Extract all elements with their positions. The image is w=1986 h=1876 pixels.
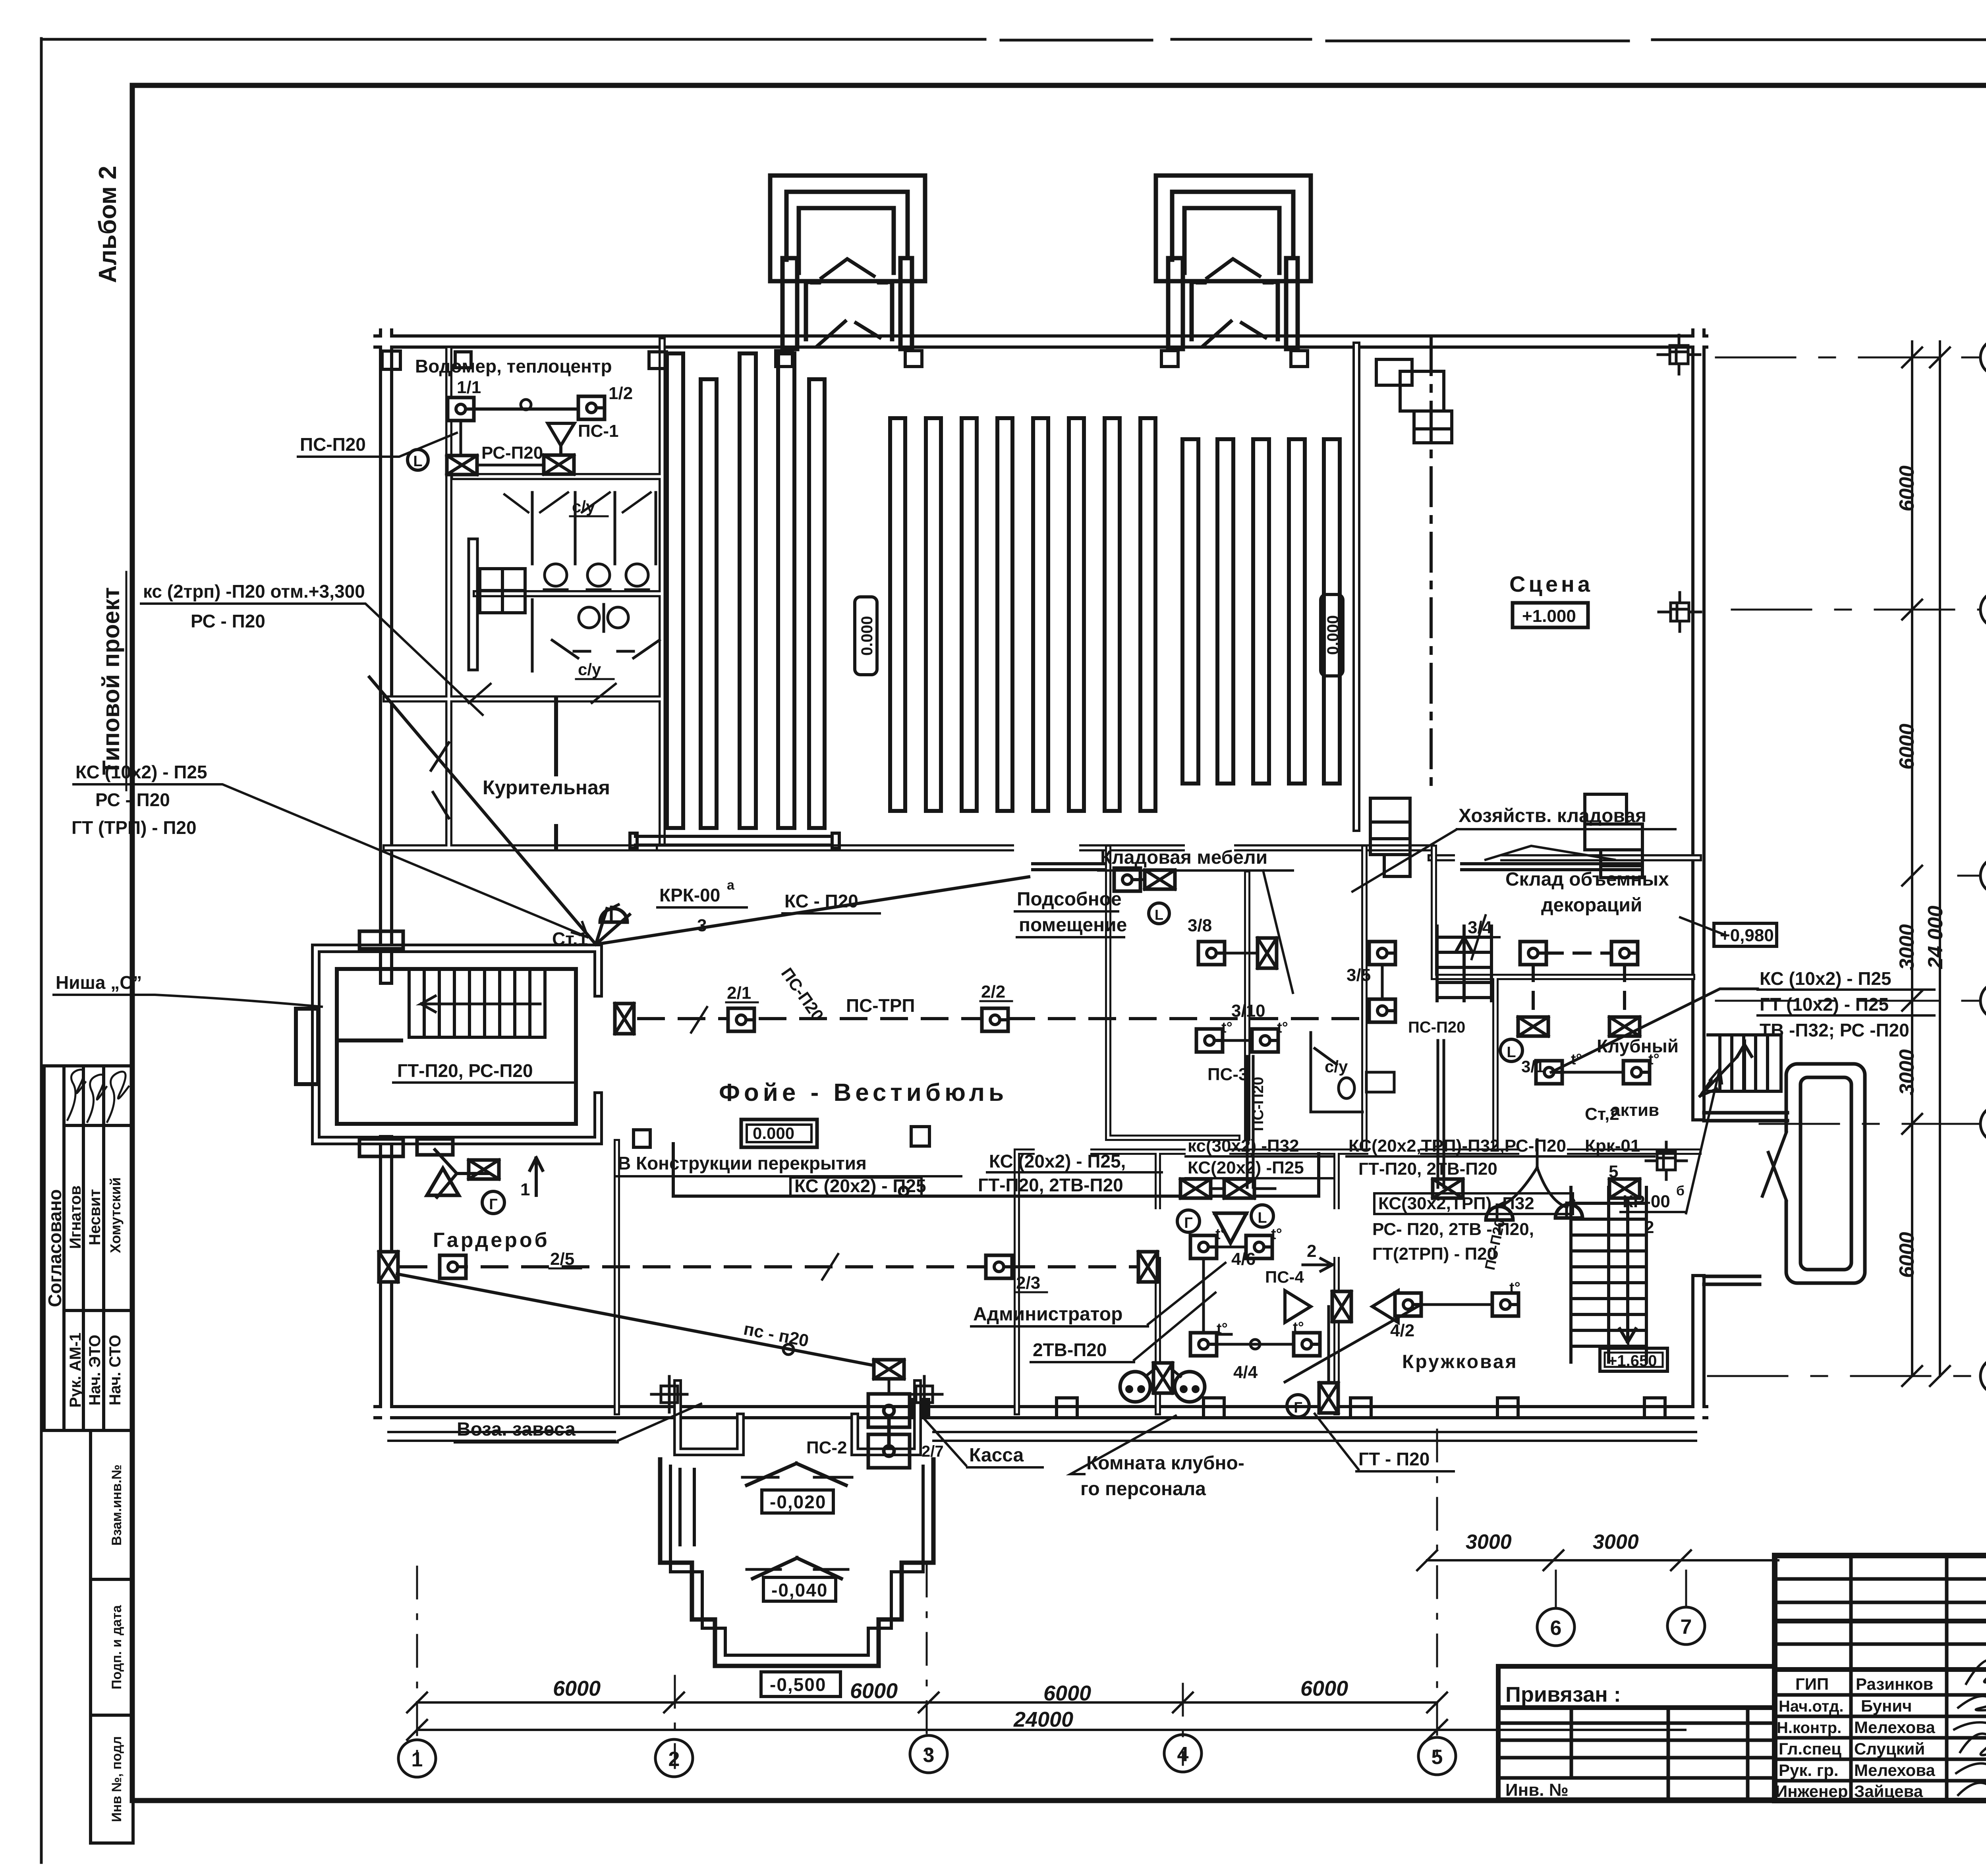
detector t1: [1190, 1235, 1217, 1258]
svg-text:РС-П20: РС-П20: [481, 443, 543, 463]
svg-text:6000: 6000: [1300, 1677, 1348, 1700]
bottom rooms band: [617, 1142, 1698, 1412]
svg-text:3: 3: [697, 916, 707, 935]
smoking room door: [431, 743, 449, 818]
valve PS-1: [544, 455, 574, 474]
level box foyer: [741, 1119, 817, 1147]
privyazan table: [1498, 1666, 1775, 1800]
svg-text:Водомер, теплоцентр: Водомер, теплоцентр: [415, 356, 612, 376]
porch terrace steps: [660, 1459, 933, 1666]
svg-text:декораций: декораций: [1541, 895, 1642, 916]
axis bubble Д: [1980, 591, 1986, 628]
svg-text:2/7: 2/7: [922, 1443, 944, 1460]
stair block inner: [337, 969, 576, 1124]
svg-text:Нач. СТО: Нач. СТО: [106, 1335, 124, 1405]
detector 3/10b: [1252, 1029, 1278, 1052]
inventory strip cells: [44, 1430, 133, 1843]
svg-text:Рук. гр.: Рук. гр.: [1779, 1761, 1839, 1779]
svg-text:ПС-П20: ПС-П20: [1408, 1019, 1465, 1036]
detector 3/5a: [1369, 942, 1395, 965]
svg-text:ГТ (ТРП) - П20: ГТ (ТРП) - П20: [71, 817, 197, 838]
svg-text:Несвит: Несвит: [86, 1189, 104, 1245]
sleeve near st2: [1646, 1142, 1687, 1179]
col: Согласовано: [62, 1066, 66, 1430]
svg-text:ПС-ТРП: ПС-ТРП: [846, 995, 915, 1016]
ceiling run foyer: [673, 1144, 1319, 1196]
svg-text:t°: t°: [1277, 1019, 1288, 1036]
svg-text:Мелехова: Мелехова: [1854, 1718, 1936, 1737]
vestibule tower 2 (stage-box entry right): [1156, 176, 1311, 349]
socket: [1175, 1372, 1205, 1402]
svg-text:Кладовая мебели: Кладовая мебели: [1100, 847, 1267, 868]
svg-text:Инв №, подл: Инв №, подл: [109, 1736, 124, 1822]
svg-text:Сцена: Сцена: [1509, 571, 1593, 596]
svg-text:5: 5: [1432, 1746, 1443, 1769]
svg-text:t°: t°: [1215, 1226, 1227, 1243]
svg-text:4/4: 4/4: [1233, 1363, 1258, 1382]
svg-text:Клубный: Клубный: [1597, 1036, 1679, 1056]
foyer line PS-TRP: [639, 1017, 995, 1020]
svg-text:кс (2трп) -П20 отм.+3,300: кс (2трп) -П20 отм.+3,300: [143, 581, 365, 602]
svg-text:Ниша „С”: Ниша „С”: [56, 972, 142, 993]
garderob line 2/5 - 2/3: [401, 1265, 1138, 1268]
detector 4/4 b: [1294, 1333, 1320, 1356]
porch door chevrons: [747, 1463, 846, 1579]
hall floor level mark right: [1321, 594, 1343, 676]
svg-text:Воза. завеса: Воза. завеса: [457, 1419, 576, 1440]
detector 2/2: [982, 1008, 1008, 1031]
svg-text:го персонала: го персонала: [1080, 1478, 1206, 1500]
axis bubble Б: [1980, 1106, 1986, 1142]
valve: [1609, 1179, 1640, 1198]
svg-text:3000: 3000: [1895, 1049, 1918, 1095]
valve: [1433, 1179, 1463, 1198]
dim line 3000 3000 for axes 5-6-7: [1427, 1559, 1778, 1561]
svg-text:t°: t°: [1217, 1320, 1228, 1337]
svg-text:Ст.1: Ст.1: [552, 928, 588, 949]
wall sleeve symbols right wall: [1658, 335, 1701, 631]
svg-text:Администратор: Администратор: [973, 1304, 1122, 1325]
detector 3/1: [1536, 1061, 1562, 1084]
seat row bars middle group: [890, 418, 1155, 811]
facade window strips: [388, 1432, 1696, 1441]
svg-text:3/10: 3/10: [1231, 1001, 1265, 1021]
svg-text:+1.650: +1.650: [1608, 1352, 1657, 1370]
service stair by khoz kladovaya: [1437, 926, 1491, 1001]
svg-text:Бунич: Бунич: [1861, 1697, 1912, 1715]
paper edge left: [40, 39, 43, 1862]
svg-text:с/у: с/у: [572, 497, 595, 516]
L circle sklada: [1500, 1039, 1522, 1062]
svg-text:Курительная: Курительная: [483, 776, 610, 799]
krk dome: [600, 905, 627, 922]
su small room fixtures: [1311, 1033, 1362, 1112]
door swings wing: [469, 684, 616, 703]
dome 1: [1486, 1202, 1513, 1220]
svg-text:помещение: помещение: [1019, 915, 1127, 936]
svg-text:+0,980: +0,980: [1720, 926, 1774, 945]
G circle kassa-side: [1287, 1395, 1309, 1417]
svg-text:Мелехова: Мелехова: [1854, 1761, 1936, 1779]
lower WC row: [532, 600, 659, 671]
svg-text:Фойе - Вестибюль: Фойе - Вестибюль: [719, 1079, 1008, 1106]
valve: [1180, 1179, 1211, 1198]
signature squiggles: [1966, 1660, 1986, 1684]
sleeve at porch left corner: [651, 1376, 687, 1412]
svg-text:КС(30х2,ТРП) -П32: КС(30х2,ТРП) -П32: [1378, 1194, 1534, 1213]
axis bubble 4: [1164, 1735, 1202, 1772]
seat row bars right group: [1182, 439, 1340, 784]
svg-text:6000: 6000: [1043, 1681, 1091, 1705]
svg-text:L: L: [1507, 1044, 1516, 1061]
svg-text:2: 2: [1307, 1241, 1316, 1261]
svg-text:4/2: 4/2: [1390, 1321, 1414, 1340]
svg-text:Ст,2: Ст,2: [1585, 1104, 1619, 1124]
detector 2/1: [728, 1008, 754, 1031]
axis bubble 7: [1685, 1571, 1687, 1607]
svg-text:ПС-1: ПС-1: [578, 421, 619, 441]
svg-text:ГИП: ГИП: [1795, 1675, 1829, 1693]
axis bubble Е: [1980, 339, 1986, 376]
svg-text:6000: 6000: [850, 1679, 898, 1703]
svg-text:Привязан :: Привязан :: [1505, 1683, 1621, 1706]
svg-text:1/2: 1/2: [609, 384, 633, 403]
svg-text:Нач. ЭТО: Нач. ЭТО: [86, 1335, 104, 1406]
valve 3/8: [1258, 938, 1277, 968]
svg-text:Г: Г: [489, 1196, 498, 1213]
right upper stairs: [1708, 1035, 1781, 1091]
door gaps in cross wall: [1021, 848, 1493, 858]
svg-text:Гл.спец: Гл.спец: [1779, 1739, 1841, 1758]
stair treads: [409, 971, 545, 1037]
svg-text:ГТ(2ТРП) - П20: ГТ(2ТРП) - П20: [1372, 1244, 1497, 1264]
axis risers from plan to bubbles: [417, 1430, 1437, 1771]
svg-text:РС - П20: РС - П20: [191, 611, 265, 631]
svg-text:6000: 6000: [1895, 465, 1918, 511]
stair arrow: [421, 996, 540, 1012]
axis bubble 6: [1555, 1571, 1557, 1608]
svg-text:ПС-4: ПС-4: [1265, 1268, 1304, 1286]
svg-text:ГТ - П20: ГТ - П20: [1358, 1449, 1430, 1469]
WC bowls: [544, 564, 649, 590]
svg-text:L: L: [1155, 907, 1163, 923]
svg-text:Разинков: Разинков: [1856, 1675, 1933, 1693]
detector 3/5b: [1369, 999, 1395, 1022]
detector 4/2b: [1492, 1293, 1518, 1316]
svg-text:Хозяйств. кладовая: Хозяйств. кладовая: [1459, 805, 1646, 826]
axis stubs to letter bubbles: [1708, 357, 1980, 1376]
svg-text:Хомутский: Хомутский: [107, 1177, 124, 1253]
svg-text:0.000: 0.000: [858, 616, 876, 656]
svg-text:Типовой проект: Типовой проект: [98, 587, 124, 775]
svg-text:2/3: 2/3: [1016, 1273, 1040, 1293]
detector 2/5: [440, 1255, 466, 1278]
svg-text:Подп. и дата: Подп. и дата: [109, 1605, 124, 1689]
foyer small square left: [911, 1127, 929, 1146]
svg-text:ГТ (10х2) - П25: ГТ (10х2) - П25: [1760, 994, 1889, 1015]
detector kl: [1114, 868, 1140, 891]
PS-1 funnel: [548, 423, 574, 465]
svg-text:кс(30х2) -П32: кс(30х2) -П32: [1188, 1136, 1299, 1156]
svg-text:24 000: 24 000: [1924, 905, 1947, 969]
diagonal PS-P20 run to kassa: [397, 1274, 888, 1368]
stair block left annexes: [296, 1009, 318, 1084]
svg-text:Г: Г: [1294, 1399, 1302, 1416]
detector t2: [1246, 1235, 1272, 1258]
svg-text:Инв. №: Инв. №: [1505, 1780, 1569, 1800]
dome 2: [1555, 1200, 1582, 1218]
svg-text:0.000: 0.000: [753, 1124, 794, 1143]
right side porch: [1704, 1064, 1865, 1284]
axis bubble Г: [1980, 857, 1986, 894]
svg-text:3000: 3000: [1593, 1531, 1639, 1554]
svg-text:Комната клубно-: Комната клубно-: [1086, 1453, 1244, 1474]
st1 point and leaders: [369, 677, 1029, 944]
bottom dimension chain line: [417, 1701, 1437, 1704]
svg-text:1/1: 1/1: [457, 378, 481, 397]
level box sklada: [1714, 923, 1777, 946]
svg-text:3/8: 3/8: [1188, 916, 1212, 935]
valve kl: [1145, 870, 1175, 889]
axis bubble 2: [655, 1739, 693, 1777]
svg-text:4/6: 4/6: [1231, 1249, 1256, 1269]
detector 1/1: [448, 398, 474, 421]
svg-text:ГТ-П20, РС-П20: ГТ-П20, РС-П20: [397, 1060, 533, 1081]
svg-text:5: 5: [1609, 1162, 1618, 1181]
seat row bars left group: [667, 353, 825, 828]
line 1/1 - 1/2 vodomer room: [461, 407, 591, 411]
svg-text:3000: 3000: [1466, 1531, 1512, 1554]
L circle admin: [1251, 1205, 1273, 1227]
stall partitions upper WC: [532, 492, 656, 564]
hall floor level mark left: [855, 597, 877, 675]
valve garderob: [379, 1252, 398, 1282]
svg-text:3/5: 3/5: [1347, 965, 1371, 985]
long rack under podsobnoe top: [1033, 864, 1104, 870]
signatures squiggles: [68, 1069, 85, 1120]
svg-text:КС (10х2) - П25: КС (10х2) - П25: [75, 762, 207, 782]
riser shaft duct: [469, 539, 477, 670]
svg-text:-0,020: -0,020: [770, 1492, 826, 1512]
valve: [1224, 1179, 1254, 1198]
axis bubble 3: [910, 1735, 947, 1773]
bottom total line: [417, 1729, 1685, 1731]
hall right wall: [1352, 345, 1360, 828]
svg-text:3: 3: [923, 1744, 935, 1767]
valves klubny komnata: [1285, 1291, 1398, 1322]
valve sklada: [1518, 1017, 1548, 1036]
axis bubble В: [1980, 982, 1986, 1019]
svg-text:Нач.отд.: Нач.отд.: [1779, 1698, 1843, 1715]
svg-text:с/у: с/у: [578, 660, 601, 679]
svg-text:Слуцкий: Слуцкий: [1854, 1739, 1925, 1758]
detector 4/4 a: [1190, 1333, 1217, 1356]
svg-text:2: 2: [1644, 1218, 1654, 1237]
svg-text:6000: 6000: [1895, 724, 1918, 770]
svg-text:Склад объемных: Склад объемных: [1505, 869, 1669, 890]
hall front edge: [630, 833, 839, 848]
bottom dim ticks: [407, 1693, 1447, 1740]
valve RS-P20: [447, 455, 477, 475]
detector 3/1b: [1623, 1061, 1650, 1084]
L circle: [408, 450, 428, 470]
detector 4/2: [1395, 1293, 1421, 1316]
vertical cable runs near podsobnoe: [1247, 1056, 1253, 1187]
shower grid: [480, 569, 525, 613]
furniture blocks right of hall top: [1376, 359, 1452, 443]
svg-text:ПС-2: ПС-2: [806, 1438, 847, 1457]
svg-text:В Конструкции перекрытия: В Конструкции перекрытия: [618, 1153, 867, 1173]
top wall piers: [455, 351, 1308, 369]
svg-text:3000: 3000: [1895, 924, 1918, 970]
outer heavy box: [1775, 1556, 1986, 1801]
svg-text:Альбом 2: Альбом 2: [94, 166, 122, 283]
svg-text:t°: t°: [1509, 1280, 1520, 1296]
svg-text:КР-00: КР-00: [1623, 1192, 1670, 1211]
stall doors: [504, 492, 651, 512]
curitelnaya inner wall stub: [554, 699, 558, 848]
svg-text:КС(20х2) -П25: КС(20х2) -П25: [1188, 1158, 1304, 1177]
stair block (Nisha S) outer walls: [316, 948, 598, 1141]
svg-text:Инженер: Инженер: [1775, 1782, 1848, 1801]
vodomer square: [382, 351, 400, 369]
svg-text:Согласовано: Согласовано: [44, 1189, 65, 1307]
svg-text:3/1: 3/1: [1521, 1057, 1544, 1076]
row divider: signatures / names: [64, 1124, 133, 1127]
svg-text:Кружковая: Кружковая: [1402, 1351, 1518, 1372]
valve at admin wall: [1138, 1252, 1157, 1282]
svg-text:t°: t°: [1293, 1319, 1304, 1336]
svg-text:Гардероб: Гардероб: [433, 1229, 550, 1252]
svg-text:1: 1: [520, 1180, 530, 1199]
level boxes: [761, 1490, 840, 1697]
axis bubble А: [1980, 1358, 1986, 1394]
svg-text:ПС-П20: ПС-П20: [300, 434, 366, 455]
right vertical dimension chain: [1911, 342, 1913, 1376]
svg-text:б: б: [1676, 1183, 1685, 1199]
svg-text:Подсобное: Подсобное: [1017, 889, 1122, 910]
svg-text:Н.контр.: Н.контр.: [1777, 1719, 1841, 1737]
detector 3/10a: [1196, 1029, 1223, 1052]
svg-text:ПС-3: ПС-3: [1207, 1065, 1248, 1084]
outer walls (double line): [381, 336, 1701, 1412]
horizontal main dividers: [1775, 1619, 1986, 1623]
main cross wall under hall: [659, 848, 1698, 858]
paper edge top: [41, 39, 1986, 41]
svg-text:КС - П20: КС - П20: [784, 891, 858, 911]
L circle kl: [1149, 903, 1169, 924]
svg-text:2ТВ-П20: 2ТВ-П20: [1033, 1339, 1107, 1360]
porch door gap and leaf: [1779, 1133, 1797, 1200]
svg-text:6: 6: [1550, 1617, 1562, 1640]
triangle device admin: [1215, 1213, 1246, 1243]
foyer small square mid: [634, 1130, 650, 1147]
svg-text:Рук. АМ-1: Рук. АМ-1: [67, 1333, 84, 1408]
valve wall: [1332, 1291, 1351, 1322]
svg-text:t°: t°: [1271, 1226, 1282, 1243]
svg-text:6000: 6000: [553, 1677, 601, 1700]
svg-text:2/2: 2/2: [981, 982, 1005, 1002]
svg-text:2/1: 2/1: [727, 983, 751, 1003]
svg-text:РС - П20: РС - П20: [95, 789, 170, 810]
svg-text:КС(20х2,ТРП)-П32,РС-П20: КС(20х2,ТРП)-П32,РС-П20: [1348, 1136, 1566, 1156]
bottom entrance porch vestibule walls: [678, 1384, 740, 1452]
svg-text:6000: 6000: [1895, 1232, 1918, 1278]
svg-text:Крк-01: Крк-01: [1585, 1136, 1640, 1156]
axis bubble 1: [398, 1740, 436, 1777]
facade piers: [910, 1398, 1665, 1418]
svg-text:t°: t°: [1221, 1019, 1233, 1036]
svg-text:2/5: 2/5: [550, 1249, 574, 1269]
kassa valve: [874, 1360, 904, 1379]
furniture shelves below hall right: [1370, 794, 1642, 878]
svg-text:7: 7: [1681, 1615, 1692, 1639]
axis bubble 5: [1418, 1737, 1456, 1775]
row divider: names / roles: [64, 1309, 133, 1312]
st2 cluster domes: [1501, 1140, 1567, 1207]
vestibule tower 1 (stage-box entry left): [770, 176, 925, 349]
svg-text:24000: 24000: [1013, 1708, 1073, 1731]
svg-text:Игнатов: Игнатов: [67, 1185, 84, 1249]
socket: [1120, 1372, 1150, 1402]
thin header rows in signature table: [1775, 1577, 1986, 1581]
chain ticks: [1902, 347, 1950, 1386]
valve sklada2: [1609, 1017, 1640, 1036]
svg-text:Взам.инв.№: Взам.инв.№: [109, 1465, 124, 1546]
G circle admin: [1177, 1210, 1200, 1232]
svg-text:Касса: Касса: [969, 1445, 1024, 1466]
tick on line: [691, 1007, 707, 1033]
svg-text:ГТ-П20, 2ТВ-П20: ГТ-П20, 2ТВ-П20: [978, 1175, 1123, 1195]
svg-text:0.000: 0.000: [1324, 615, 1342, 655]
level kruzhkovaya: [1600, 1348, 1667, 1371]
valve near G: [1319, 1383, 1338, 1413]
approvals table (Согласовано): [44, 1066, 133, 1430]
detector 1/2: [578, 396, 605, 419]
svg-text:а: а: [727, 878, 735, 893]
interior walls wing left: [386, 341, 662, 848]
svg-text:КС (20х2) - П25,: КС (20х2) - П25,: [989, 1151, 1126, 1172]
sleeve at porch right corner: [906, 1376, 942, 1412]
signature rows: [1775, 1693, 1986, 1697]
garderob bowtie + G: [469, 1160, 499, 1179]
svg-text:ПС-П20: ПС-П20: [1250, 1077, 1267, 1131]
svg-text:-0,040: -0,040: [771, 1580, 828, 1600]
svg-text:Г: Г: [1184, 1215, 1193, 1231]
detector 3/8: [1198, 942, 1225, 965]
interior partitions middle rooms: [1108, 848, 1692, 1152]
svg-text:ГТ-П20, 2ТВ-П20: ГТ-П20, 2ТВ-П20: [1358, 1159, 1497, 1179]
scene boundary dash-dot: [1430, 337, 1433, 790]
kruzhkovaya stair: [1571, 1187, 1646, 1362]
svg-text:Зайцева: Зайцева: [1854, 1782, 1923, 1801]
door gaps bottom band: [1041, 1152, 1561, 1251]
detector 3/4: [1520, 942, 1546, 965]
detector 2/3: [986, 1255, 1012, 1278]
svg-text:с/у: с/у: [1325, 1057, 1348, 1076]
signature table verticals: [1849, 1556, 1853, 1801]
underline for Типовой проект: [126, 572, 128, 790]
svg-text:КС (10х2) - П25: КС (10х2) - П25: [1760, 968, 1891, 989]
svg-text:+1.000: +1.000: [1522, 606, 1576, 626]
svg-text:КРК-00: КРК-00: [659, 885, 720, 905]
svg-text:РС- П20, 2ТВ - П20,: РС- П20, 2ТВ - П20,: [1372, 1220, 1534, 1239]
svg-text:L: L: [413, 453, 422, 470]
detector 3/4b: [1611, 942, 1638, 965]
valve at wall: [615, 1004, 634, 1034]
kassa unit boxes: [868, 1394, 910, 1468]
svg-text:-0,500: -0,500: [770, 1674, 826, 1695]
